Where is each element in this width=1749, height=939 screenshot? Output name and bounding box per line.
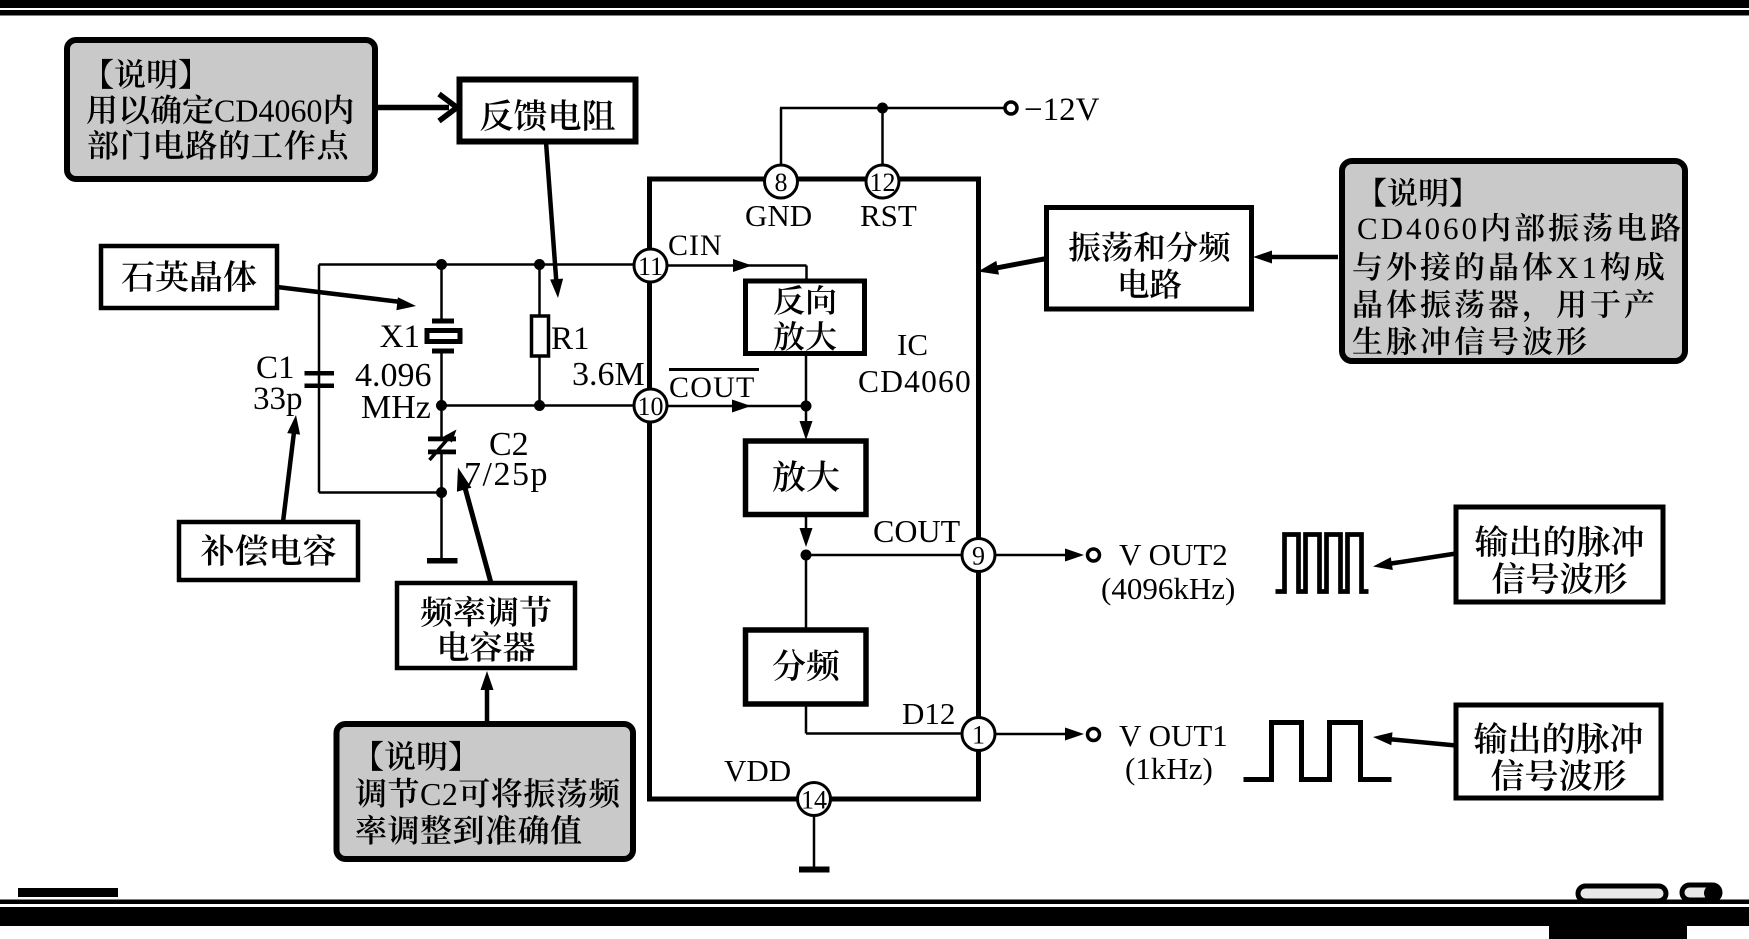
wire pin9 to VOUT2 bbox=[995, 554, 1068, 557]
ground bar below pin14 bbox=[799, 867, 830, 873]
svg-text:V OUT2: V OUT2 bbox=[1119, 537, 1228, 572]
svg-text:D12: D12 bbox=[902, 696, 955, 731]
arrow on COUTbar wire bbox=[732, 400, 751, 413]
pin 1 bbox=[962, 718, 995, 751]
svg-text:3.6M: 3.6M bbox=[572, 356, 645, 393]
wire COUT to pin9 bbox=[806, 554, 962, 557]
arrow oscillator box to IC bbox=[992, 259, 1047, 269]
label feedback resistor bbox=[481, 99, 615, 131]
page bottom rule small tick bbox=[18, 888, 118, 897]
wire -12V rail horizontal bbox=[780, 107, 1005, 110]
label inverting amplifier line2 bbox=[774, 321, 836, 351]
svg-text:GND: GND bbox=[745, 198, 812, 233]
pin 8 bbox=[765, 165, 798, 198]
arrow note3 to oscillator box bbox=[1266, 255, 1338, 260]
label oscillator divider line2 bbox=[1121, 269, 1182, 299]
callout box output waveform bottom bbox=[1456, 705, 1661, 798]
block divider bbox=[746, 630, 867, 704]
label output waveform bottom line2 bbox=[1491, 759, 1625, 791]
note box bottom bbox=[337, 724, 634, 859]
wire pin1 to VOUT1 bbox=[995, 733, 1068, 736]
svg-text:11: 11 bbox=[638, 252, 663, 281]
capacitor C1 bbox=[305, 371, 335, 388]
resistor R1 bbox=[532, 316, 549, 356]
node junction on -12V rail bbox=[877, 103, 888, 114]
pin 9 bbox=[962, 539, 995, 572]
wire inverter output down bbox=[805, 354, 808, 407]
arrow on CIN wire bbox=[733, 259, 752, 272]
svg-text:−12V: −12V bbox=[1024, 92, 1100, 128]
arrow note1 to feedback box bbox=[375, 94, 457, 121]
note box top left bbox=[67, 40, 375, 179]
svg-text:COUT: COUT bbox=[873, 513, 961, 549]
arrow compensation box to C1 bbox=[283, 428, 295, 522]
arrow wavebox top to waveform bbox=[1388, 554, 1456, 565]
label output waveform top line1 bbox=[1475, 525, 1643, 557]
wire pin14 to ground bbox=[813, 816, 816, 867]
block inverting amplifier bbox=[746, 281, 865, 354]
svg-text:1: 1 bbox=[972, 721, 985, 750]
node junction COUT bbox=[801, 550, 812, 561]
ground bar below C2 bbox=[427, 558, 458, 564]
svg-text:9: 9 bbox=[972, 542, 985, 571]
arrow feedback box to R1 bbox=[546, 142, 557, 284]
svg-text:(4096kHz): (4096kHz) bbox=[1101, 571, 1235, 606]
note box top left text bbox=[87, 59, 353, 160]
svg-text:CD4060: CD4060 bbox=[858, 364, 972, 399]
callout box frequency adjust capacitor bbox=[397, 583, 575, 668]
svg-text:8: 8 bbox=[775, 168, 788, 197]
wire C2 to ground bbox=[440, 493, 443, 560]
arrow note2 to freq box bbox=[485, 684, 490, 724]
svg-text:X1: X1 bbox=[380, 319, 420, 355]
wire CIN into inverter bbox=[665, 266, 807, 284]
pin 12 bbox=[866, 165, 899, 198]
label quartz crystal bbox=[122, 260, 257, 292]
page bottom thin rule bbox=[0, 900, 1749, 905]
svg-text:IC: IC bbox=[897, 327, 928, 362]
waveform VOUT2 pulses bbox=[1276, 535, 1369, 592]
label amplifier bbox=[773, 460, 839, 492]
label oscillator divider line1 bbox=[1069, 231, 1230, 262]
arrow wavebox bottom to waveform bbox=[1388, 739, 1456, 746]
waveform VOUT1 pulses bbox=[1244, 723, 1392, 780]
terminal VOUT1 bbox=[1088, 729, 1100, 741]
label compensation capacitor bbox=[201, 534, 335, 566]
terminal -12V bbox=[1005, 102, 1017, 114]
arrow quartz box to X1 bbox=[277, 287, 401, 302]
label frequency adjust line1 bbox=[421, 596, 551, 627]
wire pin12 to rail bbox=[881, 108, 884, 167]
arrow freq box to C2 bbox=[465, 486, 492, 583]
callout box output waveform top bbox=[1456, 507, 1663, 602]
svg-text:V OUT1: V OUT1 bbox=[1119, 718, 1228, 753]
node junction inverter output bbox=[801, 401, 812, 412]
node junction R1 top bbox=[534, 259, 545, 270]
svg-text:MHz: MHz bbox=[361, 389, 431, 426]
node junction X1 bottom bbox=[436, 400, 447, 411]
arrow into amplifier block bbox=[805, 406, 808, 430]
capacitor C2 variable bbox=[428, 430, 457, 461]
wire resistor R1 top lead bbox=[538, 265, 541, 318]
note box bottom text bbox=[356, 741, 620, 845]
wire COUTbar into node bbox=[665, 405, 806, 408]
arrow amplifier output down bbox=[805, 515, 808, 537]
wire C2 top lead bbox=[440, 406, 443, 439]
label divider bbox=[773, 649, 839, 681]
pin 10 bbox=[634, 389, 667, 422]
svg-text:10: 10 bbox=[638, 392, 664, 421]
svg-text:CIN: CIN bbox=[668, 229, 723, 262]
node junction R1 bottom bbox=[534, 400, 545, 411]
wire crystal X1 bottom lead bbox=[440, 353, 443, 406]
wire bottom net horizontal bbox=[319, 491, 442, 494]
svg-text:RST: RST bbox=[860, 198, 917, 233]
node junction C2 bottom bbox=[436, 487, 447, 498]
block amplifier bbox=[746, 441, 867, 515]
svg-text:14: 14 bbox=[801, 786, 827, 815]
svg-text:COUT: COUT bbox=[669, 371, 755, 404]
wire divider to pin1 bbox=[806, 704, 962, 734]
label inverting amplifier line1 bbox=[774, 285, 835, 315]
wire mid net COUT horizontal bbox=[442, 404, 637, 407]
crystal X1 bbox=[427, 319, 460, 354]
page top border double bar bbox=[0, 0, 1749, 16]
callout box feedback resistor bbox=[460, 80, 636, 142]
wire node to divider bbox=[805, 555, 808, 631]
wire crystal X1 top lead bbox=[440, 265, 443, 323]
page bottom thick bar bbox=[0, 907, 1749, 926]
page bottom right tab bbox=[1549, 926, 1687, 939]
pin 14 bbox=[798, 783, 831, 816]
svg-text:33p: 33p bbox=[253, 381, 303, 417]
note box right bbox=[1342, 161, 1685, 361]
svg-text:VDD: VDD bbox=[724, 753, 791, 788]
wire C2 bottom lead bbox=[440, 454, 443, 493]
pin 11 bbox=[634, 249, 667, 282]
node junction X1 top bbox=[436, 259, 447, 270]
callout box compensation capacitor bbox=[179, 522, 358, 580]
wire resistor R1 bottom lead bbox=[538, 355, 541, 406]
svg-text:R1: R1 bbox=[551, 321, 590, 357]
svg-text:12: 12 bbox=[870, 168, 896, 197]
svg-text:7/25p: 7/25p bbox=[464, 456, 549, 493]
callout box oscillator divider circuit bbox=[1047, 208, 1252, 310]
terminal VOUT2 bbox=[1088, 549, 1100, 561]
svg-text:(1kHz): (1kHz) bbox=[1125, 751, 1213, 786]
label frequency adjust line2 bbox=[440, 631, 534, 662]
label output waveform bottom line1 bbox=[1474, 722, 1642, 754]
wire pin8 to rail bbox=[780, 108, 783, 167]
callout box quartz crystal bbox=[101, 246, 277, 308]
note box right text bbox=[1353, 178, 1681, 355]
wire left vertical C1 branch bbox=[318, 265, 321, 493]
wire top net CIN horizontal bbox=[319, 263, 636, 266]
IC CD4060 outline bbox=[650, 179, 979, 799]
label output waveform top line2 bbox=[1492, 562, 1626, 594]
scan doodle marks bottom right bbox=[1578, 885, 1720, 901]
